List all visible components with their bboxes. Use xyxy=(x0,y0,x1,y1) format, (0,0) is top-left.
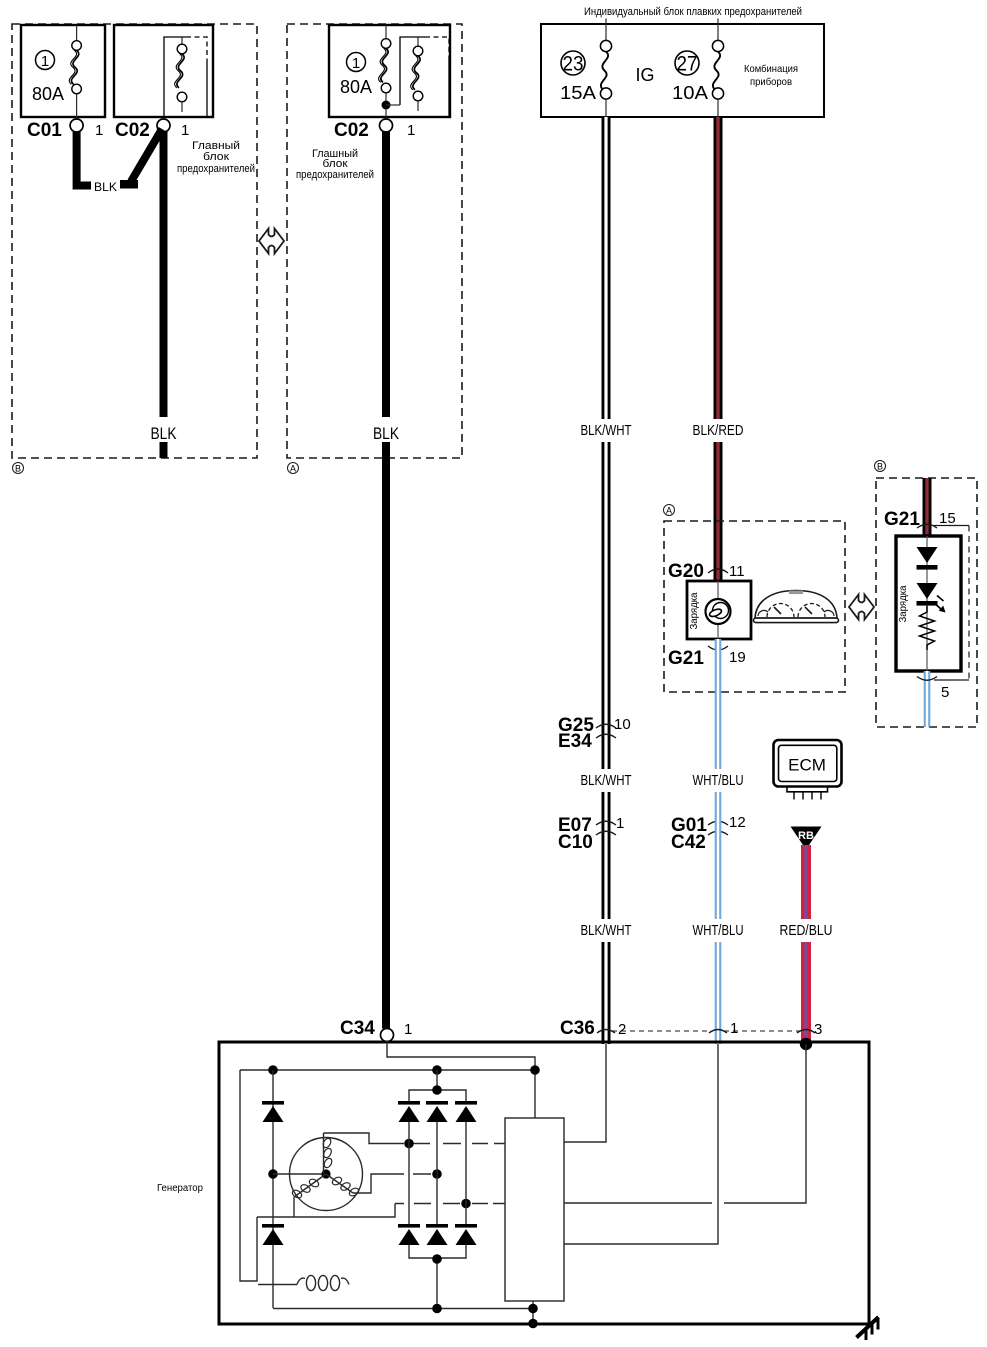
bottom bus xyxy=(273,1308,533,1310)
resistor (module B) xyxy=(920,606,935,650)
wire WHT/BLU vertical xyxy=(692,639,744,1044)
junction dot phase 1 xyxy=(404,1139,414,1149)
charge lamp symbol xyxy=(706,599,731,624)
junction dot phase 2 xyxy=(432,1169,442,1179)
stub above fuse 27 xyxy=(717,19,719,26)
fuse element F1 in C02 block A xyxy=(379,25,391,119)
phase 2 dashed continuation xyxy=(413,1173,431,1175)
phase 1 wire (top) xyxy=(324,1133,405,1144)
svg-text:15A: 15A xyxy=(560,82,597,103)
phase 1 dashed continuation xyxy=(413,1143,505,1145)
svg-text:1: 1 xyxy=(407,122,415,139)
svg-text:B: B xyxy=(877,462,883,472)
wire BLK diagonal from C02 (block B) xyxy=(131,129,162,182)
svg-text:15: 15 xyxy=(939,510,956,527)
ECM connector shell and pins xyxy=(787,787,828,800)
junction dot inside C02 block A xyxy=(382,101,401,110)
wire C36-1 to regulator xyxy=(564,1044,718,1244)
svg-text:G20: G20 xyxy=(668,561,704,582)
charge lamp box G20 xyxy=(687,581,751,639)
svg-text:1: 1 xyxy=(404,1021,412,1038)
diode D7 (bridge top col3) xyxy=(455,1101,477,1122)
bridge column 3 wire xyxy=(465,1122,467,1226)
lamp wire inside xyxy=(717,581,719,639)
svg-text:1: 1 xyxy=(41,53,49,70)
junction dot bridge top xyxy=(432,1085,442,1095)
junction dot on box bottom xyxy=(528,1319,538,1329)
connector pin circle C34-1 xyxy=(381,1029,394,1042)
fuse number 1 circle (C02 block A) xyxy=(347,53,366,73)
wire BLK/RED vertical xyxy=(692,117,744,581)
svg-text:RED/BLU: RED/BLU xyxy=(780,922,833,939)
instrument cluster gauge icon xyxy=(754,591,839,623)
top bus xyxy=(240,1069,535,1071)
dashed block A (main fuse block variant A) xyxy=(287,24,462,458)
svg-text:3: 3 xyxy=(814,1021,822,1038)
junction dot pin 3 entry xyxy=(800,1038,812,1050)
wire BLK L-shape from C01 xyxy=(77,132,91,186)
svg-text:приборов: приборов xyxy=(750,76,792,88)
svg-text:11: 11 xyxy=(729,563,745,580)
text instrument cluster xyxy=(744,63,798,88)
junction dot top bus left xyxy=(268,1065,278,1075)
dashed box B (charge LED module) xyxy=(876,478,977,727)
module internal wire xyxy=(926,536,928,671)
connector pin circle C02-1 (block B) xyxy=(157,119,170,132)
wire BLK/WHT vertical xyxy=(580,117,632,1044)
svg-text:WHT/BLU: WHT/BLU xyxy=(693,772,744,789)
svg-text:блок: блок xyxy=(203,151,229,163)
svg-text:2: 2 xyxy=(618,1021,626,1038)
svg-text:10: 10 xyxy=(614,716,631,733)
label circle A (middle) xyxy=(664,505,675,516)
fuse box C02 (block B) xyxy=(114,25,213,117)
wire WHT/BLU below module xyxy=(924,671,931,727)
svg-text:C42: C42 xyxy=(671,832,706,853)
fuse number 23 circle xyxy=(561,51,585,76)
rectifier bridge top bus xyxy=(409,1070,466,1103)
svg-text:C01: C01 xyxy=(27,120,62,141)
stub above fuse 23 xyxy=(605,19,607,26)
text main fuse block (block A) xyxy=(296,148,374,181)
diode D9 (bridge bottom col2) xyxy=(426,1224,448,1245)
fuse number 1 circle (C01) xyxy=(36,51,55,71)
label circle B (middle) xyxy=(875,461,886,472)
connector hat C36-3 xyxy=(797,1030,815,1034)
svg-text:B: B xyxy=(15,464,21,474)
svg-text:G21: G21 xyxy=(884,509,920,530)
connector hat G21-15 xyxy=(917,524,969,680)
label circle B xyxy=(13,463,24,474)
field coil xyxy=(258,1275,349,1290)
bridge column 2 wire xyxy=(436,1122,438,1226)
svg-text:1: 1 xyxy=(95,122,103,139)
svg-text:1: 1 xyxy=(730,1020,738,1037)
svg-text:G21: G21 xyxy=(668,648,704,669)
svg-text:27: 27 xyxy=(677,53,698,76)
svg-text:Генератор: Генератор xyxy=(157,1183,203,1194)
svg-text:5: 5 xyxy=(941,684,949,701)
left diode string wire xyxy=(272,1070,274,1308)
junction dot bottom bus mid xyxy=(432,1304,442,1314)
stator winding lower-left xyxy=(291,1174,326,1199)
connector hat C36-1 xyxy=(709,1030,727,1034)
svg-text:1: 1 xyxy=(352,55,360,72)
junction dot left mid xyxy=(268,1169,278,1179)
svg-text:BLK/WHT: BLK/WHT xyxy=(581,772,632,789)
fuse element F1 in C01 xyxy=(69,25,81,119)
rotor/stator circle xyxy=(290,1138,363,1211)
svg-text:BLK/WHT: BLK/WHT xyxy=(581,922,632,939)
diode D10 (bridge bottom col3) xyxy=(455,1224,477,1245)
svg-text:WHT/BLU: WHT/BLU xyxy=(693,922,744,939)
svg-text:C36: C36 xyxy=(560,1018,595,1039)
phase 3 dashes to regulator xyxy=(472,1203,505,1205)
svg-text:Зарядка: Зарядка xyxy=(688,592,700,629)
stator neutral wire xyxy=(273,1173,326,1175)
label circle A xyxy=(288,463,299,474)
diode D1 xyxy=(917,547,938,570)
stator winding up xyxy=(322,1133,334,1174)
regulator ground wire xyxy=(532,1301,534,1324)
svg-text:1: 1 xyxy=(616,815,624,832)
double-arrow equivalence symbol (middle) xyxy=(849,595,874,620)
connector hat 5 xyxy=(917,677,969,681)
dashed box A (instrument cluster charge lamp) xyxy=(664,521,845,692)
dashed block B (main fuse block variant B) xyxy=(12,24,257,458)
diode D2 (indicator) xyxy=(917,583,938,606)
connector hat G21-19 xyxy=(708,646,728,650)
svg-text:предохранителей: предохранителей xyxy=(296,169,374,181)
connector hats E07/C10 on BLK/WHT xyxy=(596,821,616,835)
indicator arrow (lamp flash) xyxy=(934,596,946,613)
charge LED module box xyxy=(896,536,961,671)
junction dot top bus mid xyxy=(432,1065,442,1075)
fuse element F2 in C02 (block B) xyxy=(175,37,187,112)
connector pin circle C02-1 (block A) xyxy=(380,119,393,132)
svg-text:ECM: ECM xyxy=(788,756,826,775)
RB connector triangle xyxy=(791,827,822,850)
connector hat C36-2 xyxy=(597,1030,615,1034)
fuse number 27 circle xyxy=(675,51,699,76)
ground symbol xyxy=(857,1317,879,1340)
svg-text:A: A xyxy=(290,464,296,474)
svg-text:BLK/WHT: BLK/WHT xyxy=(581,422,632,439)
connector pin circle C01-1 xyxy=(70,119,83,132)
svg-text:IG: IG xyxy=(635,65,654,85)
svg-text:Комбинация: Комбинация xyxy=(744,63,798,75)
junction dot bridge bottom xyxy=(432,1254,442,1264)
left branch wire xyxy=(240,1070,257,1281)
svg-text:BLK/RED: BLK/RED xyxy=(693,422,744,439)
junction dot top bus right xyxy=(530,1065,540,1075)
fuse element 23 xyxy=(600,25,611,117)
svg-text:BLK: BLK xyxy=(373,424,400,443)
wire C34 feed to regulator xyxy=(387,1041,535,1118)
bridge column 1 wire xyxy=(408,1122,410,1226)
individual fuse block box xyxy=(541,24,824,117)
diode D3 (left top) xyxy=(262,1101,284,1122)
svg-text:RB: RB xyxy=(798,830,814,842)
ECM box xyxy=(774,740,842,787)
wire BLK/RED (module B) xyxy=(923,478,932,536)
phase 3 dashed continuation xyxy=(395,1203,460,1205)
svg-text:Зарядка: Зарядка xyxy=(897,585,909,622)
fuse element F2 in C02 block A xyxy=(411,37,423,111)
fuse box C01 xyxy=(21,25,105,117)
fuse box C02 (block A) xyxy=(329,25,450,117)
wire pin3 to regulator xyxy=(564,1044,806,1203)
stator winding lower-right xyxy=(326,1174,360,1197)
svg-text:23: 23 xyxy=(563,53,584,76)
svg-text:C34: C34 xyxy=(340,1018,375,1039)
svg-text:предохранителей: предохранителей xyxy=(177,163,255,175)
connector hats G25/E34 on BLK/WHT xyxy=(596,724,616,738)
svg-text:C10: C10 xyxy=(558,832,593,853)
connector hats G01/C42 on WHT/BLU xyxy=(708,821,728,835)
svg-text:10A: 10A xyxy=(672,82,709,103)
svg-text:80A: 80A xyxy=(340,77,372,97)
wire BLK vertical (block B) xyxy=(160,131,168,458)
rectifier bridge bottom bus xyxy=(409,1245,466,1309)
diode D4 (left bottom) xyxy=(262,1224,284,1245)
svg-text:A: A xyxy=(666,506,672,516)
fuse element 27 xyxy=(712,25,723,117)
wire RED/BLU vertical xyxy=(780,845,832,1044)
svg-text:80A: 80A xyxy=(32,84,64,104)
junction dot below regulator xyxy=(528,1304,538,1314)
svg-text:C02: C02 xyxy=(334,120,369,141)
phase 3 wire (bottom) xyxy=(257,1197,395,1217)
svg-text:1: 1 xyxy=(181,122,189,139)
connector C36 dashed line xyxy=(612,1030,800,1032)
generator box xyxy=(219,1042,869,1324)
diode D6 (bridge top col2) xyxy=(426,1101,448,1122)
svg-text:Индивидуальный блок плавких пр: Индивидуальный блок плавких предохраните… xyxy=(584,6,802,18)
double-arrow equivalence symbol (between B and A) xyxy=(259,229,284,254)
svg-text:C02: C02 xyxy=(115,120,150,141)
phase 2 wire (middle) xyxy=(353,1174,404,1193)
regulator box xyxy=(505,1118,564,1301)
svg-text:BLK: BLK xyxy=(151,424,178,443)
wire BLK vertical (block A to C34) xyxy=(382,131,390,1029)
wire C36-2 to regulator xyxy=(564,1044,606,1142)
text main fuse block (block B) xyxy=(177,140,255,175)
diode D5 (bridge top col1) xyxy=(398,1101,420,1122)
svg-text:12: 12 xyxy=(729,814,746,831)
connector hat G20-11 xyxy=(708,569,728,573)
stator center dot xyxy=(321,1169,330,1178)
svg-text:BLK: BLK xyxy=(94,180,117,194)
junction dot phase 3 xyxy=(461,1199,471,1209)
diode D8 (bridge bottom col1) xyxy=(398,1224,420,1245)
svg-text:E34: E34 xyxy=(558,731,592,752)
svg-text:19: 19 xyxy=(729,649,746,666)
